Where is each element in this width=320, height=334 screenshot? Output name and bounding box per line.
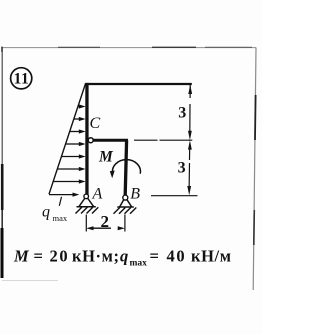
inner column (to B) [125, 140, 126, 195]
caption: M = 20 kN*m; q_max = 40 kN/m [13, 247, 232, 269]
svg-text:A: A [92, 186, 103, 203]
svg-text:2: 2 [101, 212, 110, 231]
q_max leader tick [59, 197, 61, 206]
svg-text:M: M [98, 149, 114, 166]
right border (table grid line) [253, 48, 256, 291]
column AC (left vertical member) [85, 83, 88, 195]
dimension extension line at B level [151, 195, 198, 197]
svg-text:max: max [53, 213, 68, 223]
distributed load diagonal edge [49, 83, 86, 194]
label q_max [42, 204, 68, 223]
dimension extension line at C level [134, 139, 192, 141]
support A triangle [77, 198, 96, 207]
svg-text:q: q [42, 204, 50, 221]
svg-text:кН·м;: кН·м; [72, 247, 120, 266]
beam C to inner column [93, 139, 128, 142]
distributed load arrows [49, 104, 86, 196]
support B triangle [117, 199, 134, 207]
hinge C [88, 138, 93, 143]
svg-text:кН/м: кН/м [191, 247, 232, 266]
moment arrowhead [110, 171, 115, 179]
faint bottom-left smudge [2, 280, 58, 282]
support A pin [84, 194, 89, 199]
svg-text:40: 40 [167, 247, 187, 266]
top rule (table grid line) [2, 47, 256, 52]
right dimension line [187, 85, 192, 196]
svg-text:20: 20 [50, 247, 70, 266]
svg-text:q: q [120, 247, 128, 266]
svg-text:3: 3 [178, 105, 186, 122]
svg-text:3: 3 [178, 160, 186, 177]
left border (page gutter shadow) [1, 48, 4, 279]
svg-text:11: 11 [14, 71, 30, 88]
svg-text:C: C [90, 115, 101, 132]
svg-text:=: = [150, 247, 159, 266]
problem number badge 11 [11, 68, 32, 89]
svg-text:=: = [34, 247, 43, 266]
svg-text:М: М [13, 247, 30, 266]
support B pin [123, 195, 128, 200]
support A hatching [76, 207, 99, 213]
dimension 2: line and arrows [86, 226, 125, 230]
svg-text:max: max [130, 258, 148, 268]
support B hatching [114, 208, 137, 214]
top horizontal member [85, 83, 192, 85]
moment arc [112, 160, 140, 174]
svg-text:B: B [130, 186, 140, 203]
dimension 2: extension ticks [85, 215, 87, 232]
